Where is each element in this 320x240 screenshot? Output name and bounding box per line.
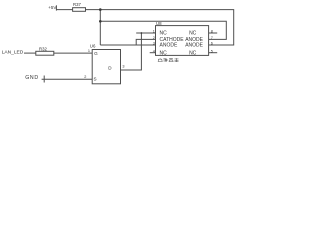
svg-text:2: 2 [84, 75, 86, 79]
wire second rail, down, to U8 pin7 row2 right [100, 21, 226, 39]
wire R32 to U6 pin1 gate [54, 52, 92, 54]
svg-text:1: 1 [88, 49, 90, 53]
svg-text:R32: R32 [39, 46, 47, 51]
svg-text:NC: NC [189, 31, 197, 37]
svg-text:U8: U8 [156, 21, 162, 26]
svg-text:4: 4 [153, 49, 155, 53]
svg-text:+5V: +5V [48, 5, 56, 10]
svg-text:G: G [94, 51, 98, 56]
svg-text:3: 3 [122, 65, 124, 69]
wire branch up to U8 pin2 row2 left [136, 39, 155, 45]
svg-text:S: S [94, 77, 97, 82]
pin stub U8 pin5 [209, 52, 218, 54]
wire LAN_LED to R32 [24, 52, 36, 54]
svg-text:7: 7 [211, 36, 213, 40]
svg-text:2: 2 [153, 36, 155, 40]
svg-text:NC: NC [160, 31, 168, 37]
svg-text:U6: U6 [90, 44, 96, 49]
wire +5V branch to U8 pin3 row3 left [100, 44, 155, 46]
U8 fiber module box [156, 26, 209, 56]
pin stub U8 pin4 [150, 52, 156, 54]
wire +5V to R37 [56, 9, 72, 11]
svg-text:ANODE: ANODE [185, 43, 203, 49]
ground tick [42, 78, 45, 80]
svg-text:GND: GND [25, 75, 39, 81]
junction dot node A [99, 8, 102, 11]
svg-text:NC: NC [189, 50, 197, 56]
svg-text:6: 6 [211, 42, 213, 46]
wire node vertical at x=100 [99, 10, 101, 45]
pin stub U8 pin8 [209, 32, 218, 34]
svg-text:R37: R37 [73, 2, 81, 7]
wire R37 right, top rail, down right edge, to U8 pin6 row3 right [86, 10, 234, 45]
transistor U6 box [92, 50, 120, 84]
wire U6 drain right and up [121, 33, 142, 70]
svg-text:3: 3 [153, 42, 155, 46]
ground bar [43, 76, 45, 83]
junction dot drain-row1 [141, 32, 143, 34]
wire U8 pin1 row1 left [136, 32, 155, 34]
caption 光纤发射 (fiber transmit) drawn as glyph strokes [158, 58, 178, 62]
resistor R32 [36, 51, 54, 55]
svg-text:1: 1 [153, 30, 155, 34]
svg-text:8: 8 [211, 30, 213, 34]
svg-text:NC: NC [160, 50, 168, 56]
wire GND to U6 pin2 source [44, 78, 92, 80]
junction dot node B [99, 20, 102, 23]
svg-text:LAN_LED: LAN_LED [2, 50, 24, 56]
resistor R37 [73, 8, 86, 12]
svg-text:5: 5 [211, 49, 213, 53]
power +5V bar [55, 5, 57, 10]
svg-text:ANODE: ANODE [160, 43, 178, 49]
